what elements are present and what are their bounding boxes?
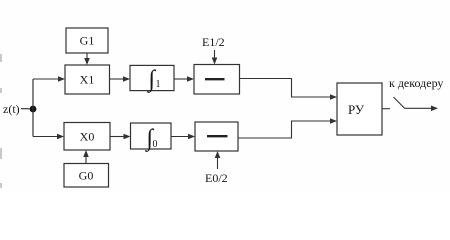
block integrator I0 — [131, 123, 172, 153]
svg-text:X0: X0 — [80, 130, 95, 144]
svg-text:к декодеру: к декодеру — [389, 76, 443, 90]
wire arrow X0 to integrator 0 — [110, 134, 131, 140]
block G0 (reference generator 0) — [64, 164, 109, 188]
wire arrow E0/2 into threshold 0 — [215, 151, 221, 169]
wire vertical bus from node — [32, 79, 34, 137]
wire arrow E1/2 into threshold 1 — [212, 50, 218, 65]
wire arrow into X0 — [33, 134, 64, 140]
block X0 multiplier — [64, 123, 110, 151]
block G1 (reference generator 1) — [66, 28, 108, 53]
svg-text:G0: G0 — [79, 169, 94, 183]
svg-text:E1/2: E1/2 — [202, 35, 225, 49]
svg-text:z(t): z(t) — [3, 102, 20, 116]
svg-text:E0/2: E0/2 — [205, 171, 228, 185]
svg-text:X1: X1 — [80, 73, 95, 87]
wire arrow integrator 0 to threshold 0 — [171, 134, 195, 140]
wire arrow into X1 — [33, 76, 65, 82]
svg-text:0: 0 — [153, 139, 158, 150]
svg-text:G1: G1 — [80, 34, 95, 48]
block RU decision device — [337, 83, 382, 135]
node junction dot — [30, 106, 37, 113]
block threshold comparator 0 — [195, 122, 238, 151]
svg-text:РУ: РУ — [348, 102, 365, 117]
wire RU output stub — [382, 108, 390, 110]
wire arrow G0 to X0 — [83, 150, 89, 164]
block integrator I1 — [130, 65, 174, 93]
wire threshold 0 to RU — [238, 118, 337, 138]
wire output arrow to decoder — [405, 106, 439, 112]
wire arrow integrator 1 to threshold 1 — [174, 76, 194, 82]
wire arrow X1 to integrator 1 — [110, 76, 131, 82]
block X1 multiplier — [65, 65, 110, 94]
wire arrow G1 to X1 — [84, 53, 90, 65]
wire input stub — [21, 108, 30, 110]
switch (key) symbol — [394, 97, 405, 108]
svg-text:1: 1 — [156, 79, 161, 90]
block threshold comparator 1 — [194, 65, 240, 95]
wire threshold 1 to RU — [240, 79, 338, 100]
